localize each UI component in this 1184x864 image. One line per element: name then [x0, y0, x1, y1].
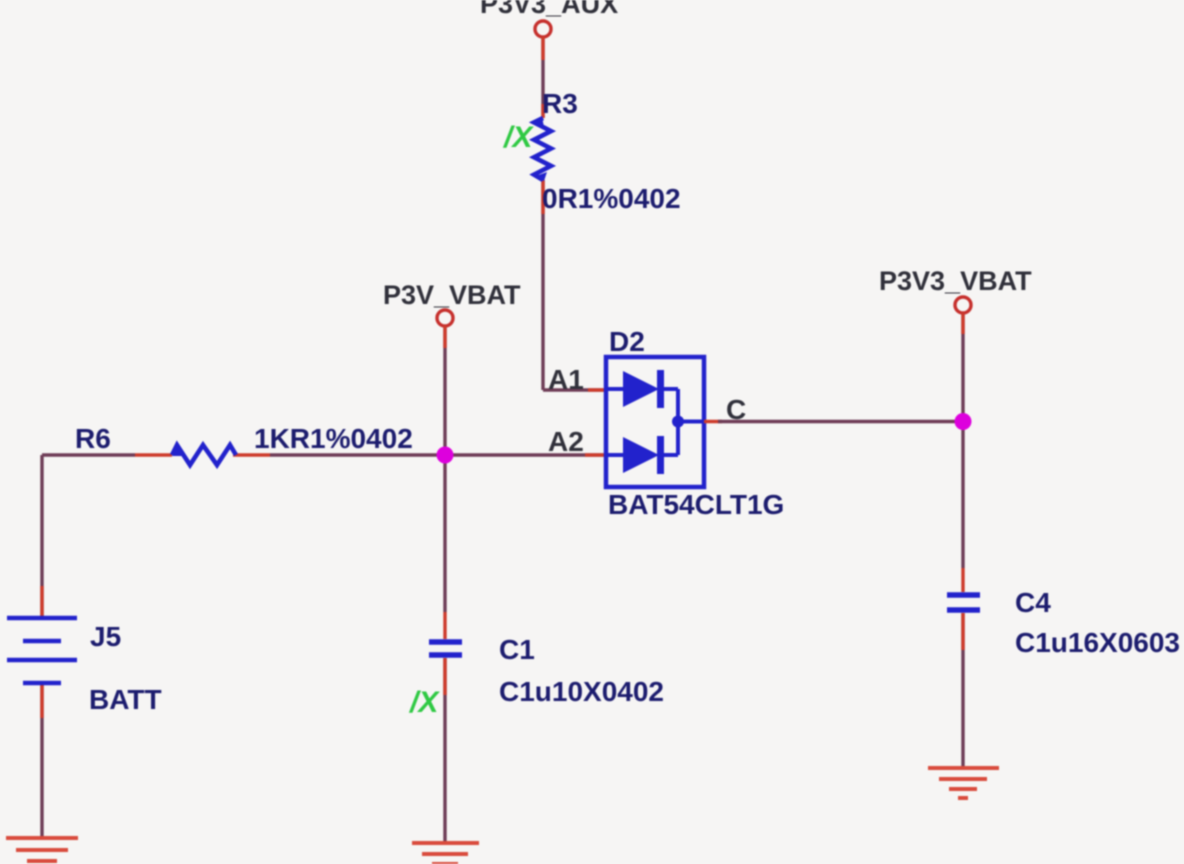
svg-text:C1u16X0603: C1u16X0603 — [1015, 627, 1180, 658]
wire P3V3_VBAT vertical maroon — [961, 313, 964, 767]
wire battery branch vertical — [40, 455, 43, 837]
svg-text:/X: /X — [502, 121, 534, 154]
power symbol P3V_VBAT circle — [437, 310, 453, 326]
svg-text:J5: J5 — [90, 621, 121, 652]
ground for battery branch — [6, 838, 78, 861]
junction node at C1 tap — [437, 447, 454, 464]
svg-text:P3V3_AUX: P3V3_AUX — [480, 0, 618, 19]
svg-text:P3V3_VBAT: P3V3_VBAT — [879, 266, 1032, 296]
battery J5 — [7, 618, 77, 683]
internal junction dot — [672, 416, 684, 428]
svg-text:A1: A1 — [548, 364, 584, 395]
svg-text:C4: C4 — [1015, 587, 1051, 618]
svg-text:R6: R6 — [75, 423, 111, 454]
junction node at C output — [955, 413, 972, 430]
ground for C4 branch — [928, 768, 999, 798]
resistor R3 — [534, 117, 551, 181]
wire C output red stub — [704, 420, 722, 423]
wire main horizontal red stubs — [135, 453, 606, 456]
svg-text:BATT: BATT — [89, 684, 162, 715]
capacitor C4 — [947, 595, 980, 610]
diode D2a (top) — [608, 370, 678, 408]
wire AUX vertical maroon — [543, 37, 606, 390]
power symbol P3V3_AUX circle — [535, 21, 551, 37]
svg-text:A2: A2 — [548, 426, 584, 457]
wire P3V_VBAT vertical maroon — [443, 326, 446, 843]
ground for C1 branch — [412, 843, 479, 864]
wire AUX red stubs — [543, 37, 606, 390]
wire C output maroon — [718, 420, 963, 423]
capacitor C1 — [429, 642, 462, 655]
svg-text:0R1%0402: 0R1%0402 — [542, 183, 681, 214]
power symbol P3V3_VBAT circle — [955, 297, 971, 313]
diode pack D2 box — [606, 357, 704, 487]
svg-text:D2: D2 — [609, 326, 645, 357]
svg-text:1KR1%0402: 1KR1%0402 — [254, 423, 413, 454]
wire P3V3_VBAT red stubs — [961, 313, 964, 650]
resistor R6 — [172, 444, 236, 465]
svg-text:BAT54CLT1G: BAT54CLT1G — [608, 489, 784, 520]
svg-text:C1u10X0402: C1u10X0402 — [499, 676, 664, 707]
wire P3V_VBAT red stubs — [443, 326, 446, 695]
svg-text:C1: C1 — [499, 634, 535, 665]
wire main horizontal maroon — [42, 453, 606, 456]
wire battery red stubs — [40, 586, 43, 718]
internal cathode wire — [678, 389, 704, 455]
svg-text:R3: R3 — [542, 88, 578, 119]
svg-text:/X: /X — [408, 686, 440, 719]
svg-text:P3V_VBAT: P3V_VBAT — [383, 280, 521, 310]
diode D2b (bottom) — [608, 436, 678, 474]
